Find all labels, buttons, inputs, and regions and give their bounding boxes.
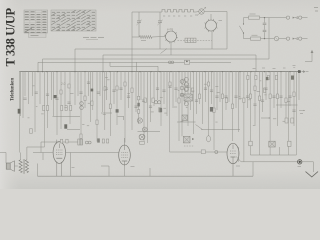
wire osc to rail	[170, 42, 172, 55]
trimmer circle extra	[142, 127, 147, 132]
fuse lamp	[298, 160, 302, 167]
dark resistor mid2	[159, 108, 162, 112]
wire stub rail D right	[136, 62, 138, 71]
resistor group lower-right	[221, 76, 295, 109]
wire step	[118, 116, 124, 120]
dark resistor right	[291, 76, 294, 80]
tube pin stubs top	[57, 140, 62, 144]
transformer output primary	[19, 160, 22, 173]
mains plug arrow	[306, 172, 319, 177]
connector plug upper	[286, 16, 301, 19]
wire segment	[33, 152, 53, 154]
wire mains upper	[244, 17, 249, 19]
tube UY11 rectifier	[204, 19, 222, 32]
tube UCH11 lower	[119, 138, 131, 166]
wire mains to rail	[268, 18, 270, 59]
wire vertical drops group 1	[19, 72, 92, 153]
resistor group lower-mid	[109, 82, 215, 113]
wire	[38, 153, 44, 177]
resistor pair above tube1	[60, 139, 68, 143]
lamp dial	[197, 7, 206, 15]
heater tap labels	[163, 15, 198, 16]
tube UCH11 oscillator	[164, 30, 178, 44]
coil stack column	[184, 77, 188, 106]
capacitor trimmer C1	[136, 12, 141, 37]
wire left branch vertical	[131, 12, 133, 72]
wire	[279, 38, 287, 40]
wire dashed AVC	[184, 145, 194, 147]
wire vertical drops group 4	[233, 72, 300, 148]
switch mains	[239, 18, 244, 39]
electrolytic dark 2	[64, 124, 67, 128]
wire	[177, 121, 196, 123]
wire	[201, 129, 240, 131]
wire heater supply top	[132, 11, 162, 13]
transformer core	[23, 159, 24, 174]
tube UF11 lower	[227, 143, 239, 176]
capacitor group lower-left	[23, 82, 130, 103]
wire grid line	[41, 142, 80, 153]
wire	[149, 168, 151, 176]
dark resistor mid3	[116, 109, 119, 112]
capacitor trimmer C2	[157, 12, 162, 49]
wire segment	[66, 152, 119, 154]
wire rectifier cathode	[211, 31, 213, 40]
wire main bus	[19, 71, 301, 73]
speaker	[6, 161, 14, 172]
wire risers heater chain	[239, 146, 297, 162]
wire corner	[236, 157, 241, 162]
caption under table	[83, 37, 104, 39]
wire	[226, 12, 228, 50]
wire rect cathode down	[211, 40, 213, 49]
electrolytic dark	[53, 95, 56, 98]
lamp ballast	[274, 36, 278, 40]
wire vertical drops group 3	[167, 72, 229, 152]
switch box on rail	[184, 60, 189, 64]
IF transformer T3	[269, 141, 275, 147]
coil ellipse on grid lead	[207, 136, 211, 142]
wire vertical drops group 2	[97, 72, 164, 143]
wire	[302, 38, 308, 40]
wire rail E	[110, 62, 158, 71]
arrow symbol a.Z	[299, 110, 305, 114]
wire	[152, 36, 166, 39]
IF transformer T1	[184, 94, 193, 101]
table tube data	[51, 10, 96, 31]
bus junctions	[37, 71, 290, 72]
wire	[252, 162, 254, 176]
coil ellipse pair	[182, 79, 189, 91]
tuning capacitor 365	[139, 134, 145, 144]
wire transformer top	[21, 147, 45, 160]
capacitor group lower-mid	[134, 86, 213, 107]
wire diagonal	[196, 125, 203, 130]
resistor block	[288, 141, 291, 146]
wire	[138, 131, 161, 133]
resistor pair right	[285, 118, 294, 123]
dark resistor mid	[210, 107, 213, 112]
circle pair small	[85, 141, 91, 144]
labels above bus right	[253, 67, 286, 70]
wire rail A	[75, 49, 227, 72]
coil circles extra column	[180, 80, 184, 97]
resistor heater dropper chain	[162, 10, 196, 13]
label tube 2	[131, 166, 135, 168]
wire	[204, 11, 227, 13]
wire	[261, 38, 275, 40]
coil hatch box	[78, 139, 83, 145]
junction blob	[298, 70, 301, 73]
wire speaker link	[0, 153, 18, 167]
wire heater chain bottom	[250, 154, 296, 156]
wire	[276, 104, 298, 106]
wire	[132, 36, 140, 38]
electrolytic block	[249, 141, 252, 146]
coil filter choke	[185, 38, 196, 42]
jack circle	[215, 151, 218, 154]
wire	[161, 49, 168, 54]
wire	[67, 129, 80, 131]
connector plug lower	[286, 37, 301, 40]
wire B minus rail	[241, 161, 297, 163]
label 50 ohm	[141, 40, 146, 42]
tuning gang column	[137, 96, 142, 123]
wire rectifier anode	[210, 14, 212, 20]
wire	[260, 17, 287, 19]
capacitor line filter pair	[263, 17, 267, 39]
resistor R osc	[140, 35, 153, 38]
resistor mains upper	[249, 14, 260, 19]
dark capacitor right2	[266, 77, 269, 80]
resistor dark small	[97, 138, 100, 142]
potentiometer crosshatch box	[183, 136, 193, 143]
label 14e	[72, 167, 75, 169]
tube UCL11 output	[53, 142, 65, 177]
resistor mains lower	[251, 35, 261, 40]
wire	[302, 17, 308, 19]
resistor group lower-left	[30, 84, 107, 139]
wire bus arrow end	[302, 71, 309, 73]
label tube 3	[236, 165, 240, 167]
wire	[124, 166, 126, 176]
label +33	[70, 93, 74, 95]
note top right	[314, 8, 318, 12]
jack pair on rail	[169, 61, 174, 64]
coupling capacitor	[201, 150, 205, 154]
IF transformer T2	[182, 115, 188, 121]
wire mains lower	[244, 38, 251, 40]
wire	[101, 112, 112, 114]
wire arrowed tap	[261, 117, 271, 118]
wire segment	[170, 151, 227, 153]
ground mark near bus end	[293, 66, 296, 68]
wire	[302, 161, 313, 163]
table voltage data	[24, 10, 48, 37]
wire dashed coupling	[178, 39, 213, 41]
trimmer circle pair	[154, 101, 160, 104]
wire	[70, 153, 72, 177]
dark capacitor mid-left	[91, 89, 94, 92]
value labels scatter	[28, 78, 291, 126]
antenna arrow top right	[305, 50, 313, 62]
transformer output secondary	[25, 160, 28, 173]
wire rail C	[43, 59, 270, 72]
wire	[53, 116, 81, 118]
wire bottom rail	[38, 175, 254, 177]
resistor pair mid bottom	[102, 139, 109, 143]
wire	[312, 162, 314, 172]
capacitor group lower-right	[215, 88, 295, 111]
electrolytic dark left	[18, 109, 21, 114]
wire rail B	[103, 55, 256, 72]
wire	[101, 166, 109, 177]
wire double left drop	[19, 72, 21, 116]
wire	[196, 11, 199, 14]
wire rail D	[38, 62, 231, 71]
diode circles stacked	[80, 102, 84, 110]
